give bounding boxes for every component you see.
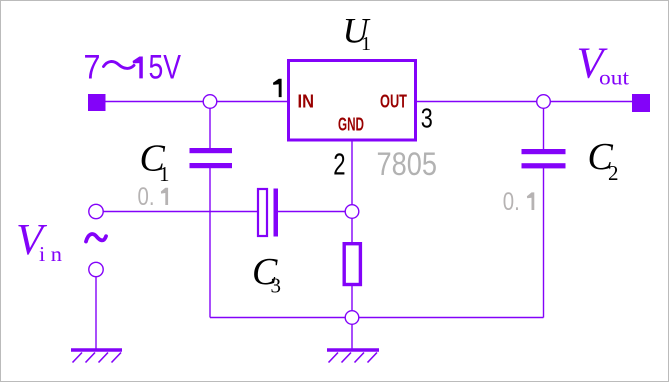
svg-text:5V: 5V — [149, 49, 182, 87]
label C2 — [588, 136, 619, 185]
label U1 — [343, 11, 372, 56]
svg-text:7: 7 — [84, 49, 101, 87]
input terminal — [88, 94, 106, 111]
regulator U1 box — [289, 61, 416, 141]
wire C2 branch bottom — [543, 168, 545, 318]
ground (middle) — [327, 350, 379, 363]
label 7~15V — [84, 49, 182, 87]
wire node to resistor — [351, 212, 353, 244]
svg-text:GND: GND — [338, 114, 364, 135]
svg-text:1: 1 — [361, 33, 371, 55]
wire C1 branch bottom — [209, 168, 211, 318]
svg-text:0.: 0. — [138, 183, 155, 211]
capacitor C2 — [522, 149, 566, 168]
source lower terminal — [89, 262, 103, 276]
svg-text:2: 2 — [608, 161, 619, 185]
wire resistor to bus node — [351, 286, 353, 318]
ac source symbol ~ — [86, 234, 106, 241]
svg-text:1: 1 — [159, 162, 170, 186]
pin number 1 — [273, 79, 282, 97]
wire input rail — [106, 101, 289, 103]
wire ground bus — [210, 317, 544, 319]
wire GND pin 2 — [351, 142, 353, 212]
label Vout — [577, 39, 630, 90]
svg-text:IN: IN — [298, 91, 315, 112]
source upper terminal — [89, 204, 103, 218]
wire C3 to node — [278, 211, 352, 213]
ground (left) — [71, 350, 122, 363]
node output rail / C2 — [537, 95, 551, 109]
svg-text:0.: 0. — [503, 188, 520, 216]
svg-text:7805: 7805 — [377, 146, 438, 182]
node input rail / C1 — [203, 95, 217, 109]
resistor — [344, 244, 360, 285]
svg-text:i n: i n — [39, 242, 63, 266]
wire Vin lower terminal to ground — [95, 277, 97, 349]
wire Vin to C3 — [103, 211, 258, 213]
label C1 — [140, 138, 170, 187]
svg-text:3: 3 — [421, 103, 433, 134]
node ground bus — [345, 311, 359, 325]
wire C2 branch top — [543, 102, 545, 150]
wire C1 branch top — [209, 102, 211, 149]
svg-text:OUT: OUT — [380, 91, 407, 112]
svg-text:2: 2 — [333, 147, 345, 182]
capacitor C3 — [258, 189, 278, 237]
label Vin — [16, 215, 63, 266]
capacitor C1 — [190, 148, 233, 168]
node GND / C3 — [345, 205, 359, 219]
wire bus node to ground — [351, 318, 353, 349]
output terminal — [632, 94, 650, 112]
svg-text:3: 3 — [271, 274, 282, 298]
wire output rail — [416, 101, 632, 103]
label C3 — [252, 251, 281, 298]
svg-text:out: out — [599, 66, 629, 90]
